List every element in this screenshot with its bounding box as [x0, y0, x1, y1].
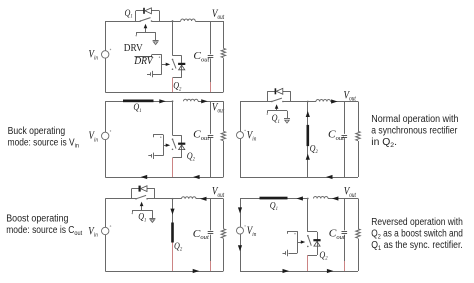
current arrow right after Q1 (buck mode) — [159, 99, 166, 103]
capacitor Cout (boost mode) — [208, 199, 214, 271]
wire bottom rail (sync mode) — [240, 177, 358, 179]
svg-text:Cout: Cout — [193, 50, 209, 63]
svg-text:Q1: Q1 — [133, 102, 142, 114]
inductor L (reversed mode) — [314, 197, 329, 199]
svg-text:Q1 as the sync. rectifier.: Q1 as the sync. rectifier. — [371, 240, 463, 252]
inductor L (buck mode) — [184, 99, 199, 101]
current arrow left after inductor (boost mode) — [200, 197, 207, 201]
label Q2 (sync mode) — [310, 144, 319, 156]
wire top rail middle segment — [152, 20, 174, 22]
wire inductor to Vout node (sync mode) — [331, 101, 359, 103]
wire Q2 drain (buck mode) — [172, 101, 174, 135]
wire bottom rail (reversed mode) — [240, 271, 358, 273]
wire top rail (reversed mode) — [240, 198, 309, 200]
wire top rail middle segment (sync mode) — [283, 101, 309, 103]
svg-text:in Q2.: in Q2. — [371, 137, 397, 149]
label Q1 (buck mode) — [133, 102, 142, 114]
inductor L (boost mode) — [182, 197, 197, 199]
wire Q2 source stub red (reversed mode) — [307, 255, 309, 271]
caption buck operating mode — [8, 126, 80, 150]
wire top rail left segment (boost mode) — [105, 198, 136, 200]
current arrow right on bottom rail (boost mode) — [193, 269, 200, 273]
MOSFET Q2 with body diode (reversed mode) — [307, 232, 321, 256]
current arrow right after inductor (buck mode) — [201, 99, 208, 103]
label Vout (boost mode) — [212, 184, 225, 199]
wire bottom rail (buck mode) — [105, 177, 223, 179]
svg-text:Q2: Q2 — [173, 81, 182, 93]
conducting switch Q2 vertical bar (sync mode) — [307, 102, 310, 178]
label Cout (boost mode) — [193, 228, 209, 241]
svg-text:Buck operating: Buck operating — [8, 126, 66, 137]
wire inductor to Vout node (reversed mode) — [328, 198, 358, 200]
svg-text:a synchronous rectifier: a synchronous rectifier — [371, 125, 458, 136]
label Vout (full schematic) — [212, 6, 225, 21]
label Vin (sync mode) — [247, 129, 257, 142]
gate driver for Q1 (boost mode) — [132, 202, 156, 223]
svg-text:Cout: Cout — [193, 129, 209, 142]
svg-text:Vin: Vin — [89, 49, 99, 62]
label Vin (full schematic) — [89, 49, 99, 62]
svg-text:mode: source is Cout: mode: source is Cout — [6, 225, 82, 237]
svg-text:Vout: Vout — [344, 184, 357, 199]
svg-text:Q2 as a boost switch and: Q2 as a boost switch and — [371, 228, 463, 240]
svg-text:Q2: Q2 — [187, 151, 196, 163]
svg-text:DRV: DRV — [133, 56, 154, 67]
svg-text:Vout: Vout — [212, 184, 225, 199]
load resistor (full schematic) — [221, 21, 225, 92]
gate driver DRVbar for Q2 — [147, 55, 170, 78]
svg-text:Q2: Q2 — [174, 241, 183, 253]
svg-text:Q1: Q1 — [138, 212, 147, 224]
wire Q2 source stub red (buck mode) — [172, 158, 174, 177]
svg-text:Vin: Vin — [89, 130, 99, 143]
voltage source Vin (full schematic) — [102, 21, 112, 92]
inductor L (full schematic) — [181, 19, 196, 21]
voltage source Vin (reversed mode) — [237, 199, 246, 272]
capacitor Cout (sync mode) — [342, 102, 348, 178]
label Cout (sync mode) — [328, 129, 344, 142]
wire Q2 source stub red — [172, 78, 174, 92]
current arrow down on left rail upper (reversed mode) — [238, 207, 242, 213]
load resistor (reversed mode) — [356, 199, 360, 272]
wire inductor to Vout node — [195, 21, 223, 23]
label Cout (full schematic) — [193, 50, 209, 63]
current arrow down on Q2 branch (boost mode) — [170, 209, 174, 215]
svg-text:Vin: Vin — [88, 225, 98, 238]
wire inductor to Vout node (buck mode) — [198, 101, 223, 103]
svg-text:Q1: Q1 — [125, 8, 134, 20]
wire top rail (buck mode) — [105, 100, 173, 102]
svg-text:Q1: Q1 — [270, 200, 279, 212]
gate driver for Q2 (reversed mode) — [283, 231, 306, 256]
wire top rail left segment — [105, 21, 140, 23]
switch Q1 with body diode (full schematic) — [136, 8, 160, 22]
wire Q2 drain (full schematic) — [172, 21, 174, 56]
label Cout (reversed mode) — [329, 228, 345, 241]
svg-text:Normal operation with: Normal operation with — [371, 114, 458, 125]
wire top rail left segment (sync mode) — [240, 101, 272, 103]
svg-text:Q2: Q2 — [319, 250, 328, 262]
svg-text:Cout: Cout — [328, 129, 344, 142]
svg-text:Vout: Vout — [212, 6, 225, 21]
capacitor Cout (full schematic) — [208, 21, 214, 92]
svg-text:Q1: Q1 — [272, 113, 281, 125]
current arrow right on bottom rail left (reversed mode) — [283, 269, 290, 273]
svg-text:Cout: Cout — [329, 228, 345, 241]
label DRV — [124, 42, 143, 54]
MOSFET Q2 with body diode (buck mode) — [172, 135, 186, 158]
caption boost operating mode — [6, 213, 82, 237]
svg-text:Vin: Vin — [247, 225, 257, 238]
label Q2 (reversed mode) — [319, 250, 328, 262]
svg-text:Vin: Vin — [247, 129, 257, 142]
gate driver DRV for Q1 — [136, 24, 159, 45]
switch Q1 with body diode (sync mode) — [267, 88, 290, 102]
current arrow down on left rail lower (reversed mode) — [238, 245, 242, 251]
label Q2 (buck mode) — [187, 151, 196, 163]
load resistor (sync mode) — [356, 102, 360, 178]
svg-text:DRV: DRV — [124, 42, 143, 54]
label Q1 (boost mode) — [138, 212, 147, 224]
svg-text:Q2: Q2 — [310, 144, 319, 156]
label DRVbar — [133, 56, 154, 67]
gate driver for Q1 (sync mode) — [267, 104, 290, 123]
wire bottom rail (full schematic) — [105, 92, 223, 94]
voltage source Vin (sync mode) — [237, 102, 246, 178]
label Vout (sync mode) — [344, 87, 357, 102]
current arrow left on bottom rail near load (buck mode) — [193, 175, 200, 179]
current arrow right after inductor (sync mode) — [331, 99, 338, 103]
wire switch node to inductor (sync mode) — [308, 101, 316, 103]
gate driver for Q2 (buck mode) — [148, 135, 170, 160]
current arrow up on Q2 branch upper (sync mode) — [306, 111, 310, 117]
caption normal operation — [371, 114, 458, 149]
load resistor (buck mode) — [221, 101, 225, 177]
label Q2 (full schematic) — [173, 81, 182, 93]
label Vin (boost mode) — [88, 225, 98, 238]
label Cout (buck mode) — [193, 129, 209, 142]
voltage source Vin (buck mode) — [102, 101, 112, 177]
load resistor (boost mode) — [221, 199, 225, 271]
closed switch Q1 conducting bar (buck mode) — [123, 100, 154, 103]
svg-text:Reversed operation with: Reversed operation with — [371, 217, 463, 228]
switch Q1 with conducting body diode (boost mode) — [132, 186, 155, 200]
wire bottom rail (boost mode) — [105, 271, 223, 273]
label Q1 (sync mode) — [272, 113, 281, 125]
wire switch-node to inductor — [173, 21, 181, 23]
current arrow left after Q1 (reversed mode) — [296, 196, 303, 200]
current arrow left on bottom rail (sync mode) — [326, 175, 333, 179]
label Vin (buck mode) — [89, 130, 99, 143]
wire switch node to inductor (boost mode) — [173, 198, 182, 200]
wire top rail middle segment (boost mode) — [147, 198, 173, 200]
voltage source Vin (boost mode) — [102, 199, 112, 271]
label Q1 (reversed mode) — [270, 200, 279, 212]
conducting switch Q2 vertical bar (boost mode) — [171, 199, 174, 271]
current arrow left on bottom rail near source (buck mode) — [141, 175, 148, 179]
wire Q2 drain (reversed mode) — [307, 199, 309, 232]
svg-text:mode: source is Vin: mode: source is Vin — [8, 137, 80, 149]
label Q1 (full schematic) — [125, 8, 134, 20]
wire inductor to Vout node (boost mode) — [196, 198, 224, 200]
label Vout (buck mode) — [212, 100, 225, 115]
label Vout (reversed mode) — [344, 184, 357, 199]
inductor L (sync mode) — [316, 100, 331, 102]
current arrow right on bottom rail right (reversed mode) — [327, 269, 334, 273]
svg-text:Boost operating: Boost operating — [6, 213, 68, 224]
caption reversed operation — [371, 217, 463, 252]
svg-text:Vout: Vout — [344, 87, 357, 102]
MOSFET Q2 with body diode (full schematic) — [172, 56, 186, 78]
closed switch Q1 conducting bar (reversed mode) — [260, 197, 288, 200]
capacitor Cout (buck mode) — [208, 101, 214, 177]
label Q2 (boost mode) — [174, 241, 183, 253]
svg-text:Cout: Cout — [193, 228, 209, 241]
current arrow up on Q2 branch lower (sync mode) — [306, 154, 310, 160]
capacitor Cout (reversed mode) — [342, 199, 348, 272]
current arrow left after inductor (reversed mode) — [332, 196, 339, 200]
label Vin (reversed mode) — [247, 225, 257, 238]
